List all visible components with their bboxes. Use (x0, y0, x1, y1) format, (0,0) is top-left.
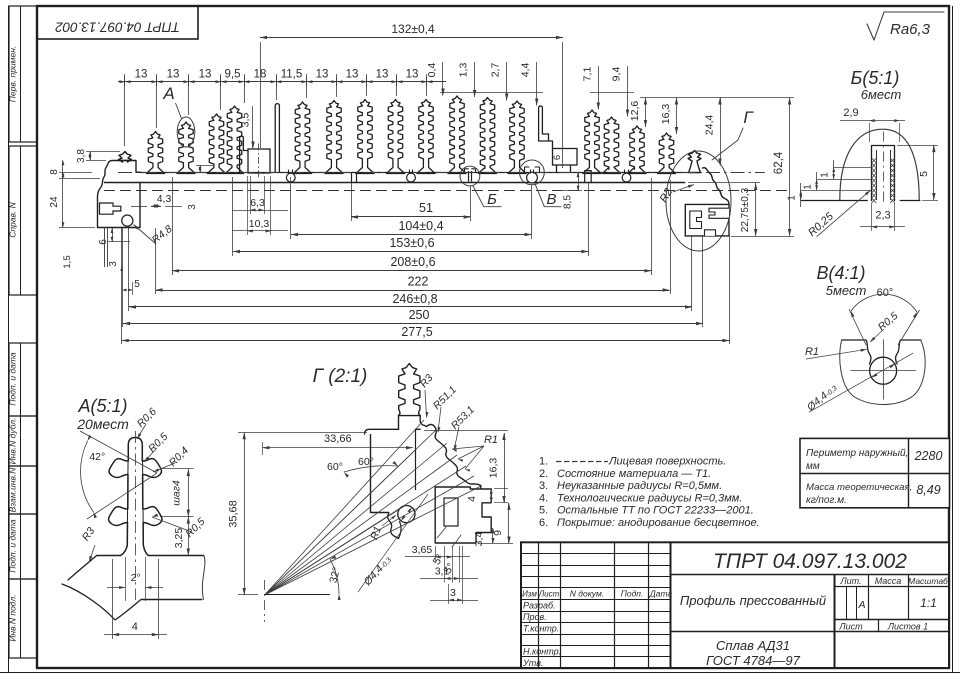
dash-dot face line (118, 172, 765, 174)
dim 24,4 (704, 98, 722, 166)
svg-text:Подп. и дата: Подп. и дата (8, 352, 18, 405)
detail marker G ellipse (666, 108, 754, 251)
svg-text:Масштаб: Масштаб (908, 576, 949, 586)
svg-text:Б(5:1): Б(5:1) (851, 68, 900, 88)
svg-text:Т.контр.: Т.контр. (523, 624, 559, 634)
svg-text:3.: 3. (539, 480, 548, 492)
stacked dims 51..277,5 (122, 177, 730, 344)
svg-text:2,3: 2,3 (875, 210, 890, 222)
svg-text:Масса теоретическая,: Масса теоретическая, (806, 482, 912, 493)
svg-text:мм: мм (806, 461, 820, 472)
svg-text:62,4: 62,4 (773, 151, 785, 174)
detail view B(5:1) (787, 68, 938, 239)
svg-text:Разраб.: Разраб. (523, 601, 556, 611)
svg-text:Периметр наружный,: Периметр наружный, (806, 448, 908, 459)
svg-text:Перв. примен.: Перв. примен. (8, 46, 18, 103)
svg-text:2,7: 2,7 (490, 63, 502, 78)
svg-text:8,49: 8,49 (916, 483, 940, 497)
svg-text:60°: 60° (877, 287, 894, 299)
svg-text:Взам.инв.N: Взам.инв.N (8, 467, 18, 513)
svg-text:Н.контр.: Н.контр. (523, 647, 561, 657)
dim 8,5 (560, 172, 582, 209)
svg-text:12,6: 12,6 (629, 101, 641, 122)
R2 label (658, 185, 694, 205)
svg-text:А: А (857, 599, 865, 611)
svg-text:104±0,4: 104±0,4 (398, 219, 443, 233)
left margin column (8, 6, 38, 658)
svg-text:Лицевая поверхность.: Лицевая поверхность. (608, 456, 726, 468)
svg-text:Покрытие: анодирование бесцвет: Покрытие: анодирование бесцветное. (557, 517, 760, 529)
svg-text:6: 6 (552, 155, 563, 160)
groove 1 (286, 170, 295, 182)
svg-text:R1: R1 (805, 346, 819, 358)
groove 3 (622, 170, 631, 182)
svg-text:5мест: 5мест (826, 283, 867, 298)
slot B (465, 169, 476, 182)
svg-text:кг/пог.м.: кг/пог.м. (806, 495, 847, 506)
svg-text:5: 5 (918, 171, 930, 177)
svg-text:1: 1 (787, 195, 798, 201)
svg-text:В: В (546, 191, 556, 208)
pitch dimension row 13/13/13/9,5/18/11,5 (118, 69, 446, 147)
svg-text:Неуказанные радиусы R=0,5мм.: Неуказанные радиусы R=0,5мм. (557, 480, 722, 492)
dim 62,4 (723, 98, 794, 237)
svg-text:Дата: Дата (649, 589, 673, 599)
svg-text:В(4:1): В(4:1) (816, 263, 865, 283)
svg-text:А(5:1): А(5:1) (77, 396, 127, 416)
small end fin left (119, 152, 132, 163)
groove 2 (407, 170, 416, 182)
svg-text:Подп.: Подп. (621, 589, 644, 599)
svg-text:13: 13 (167, 69, 180, 81)
svg-text:Ra6,3: Ra6,3 (890, 21, 931, 38)
svg-text:ГОСТ 4784—97: ГОСТ 4784—97 (706, 653, 800, 668)
svg-text:2,9: 2,9 (843, 107, 858, 119)
svg-text:Инв.N дубл.: Инв.N дубл. (8, 418, 18, 465)
svg-text:51: 51 (419, 201, 433, 215)
svg-text:246±0,8: 246±0,8 (392, 292, 437, 306)
svg-text:13: 13 (376, 69, 389, 81)
svg-text:16,3: 16,3 (660, 104, 672, 125)
svg-text:13: 13 (135, 69, 148, 81)
svg-text:Профиль прессованный: Профиль прессованный (680, 593, 826, 608)
svg-text:4,3: 4,3 (157, 193, 172, 205)
svg-text:60°: 60° (358, 456, 374, 468)
svg-text:13: 13 (406, 69, 419, 81)
dim 132±0,4 (260, 22, 563, 168)
svg-text:Лит.: Лит. (839, 576, 861, 586)
svg-text:13: 13 (199, 69, 212, 81)
svg-text:4.: 4. (539, 492, 548, 504)
svg-text:1: 1 (820, 172, 831, 178)
svg-text:2.: 2. (539, 468, 548, 480)
svg-text:9,4: 9,4 (611, 67, 623, 82)
svg-text:0,4: 0,4 (426, 63, 438, 78)
svg-text:Сплав АД31: Сплав АД31 (716, 638, 790, 653)
svg-text:153±0,6: 153±0,6 (389, 236, 434, 250)
svg-text:18: 18 (254, 69, 267, 81)
svg-text:ТПРТ 04.097.13.002: ТПРТ 04.097.13.002 (713, 550, 907, 573)
svg-text:Подп. и дата: Подп. и дата (8, 519, 18, 572)
svg-text:Лист: Лист (838, 622, 863, 632)
groove B (527, 170, 538, 183)
dim 12,6 (629, 98, 723, 128)
svg-text:Состояние материала — Т1.: Состояние материала — Т1. (557, 468, 711, 480)
svg-text:1:1: 1:1 (920, 596, 937, 610)
svg-text:6мест: 6мест (861, 87, 902, 102)
dim 3,5 channel (240, 106, 255, 149)
svg-text:Технологические радиусы R=0,3м: Технологические радиусы R=0,3мм. (557, 492, 742, 504)
channel box feature (240, 136, 270, 178)
svg-text:33,66: 33,66 (324, 433, 352, 445)
detail view V(4:1) (804, 263, 925, 414)
detail marker B circle (460, 166, 501, 208)
svg-text:6,3: 6,3 (250, 197, 265, 209)
svg-text:3,1: 3,1 (435, 566, 450, 578)
svg-text:7,1: 7,1 (581, 67, 593, 82)
svg-text:Остальные ТТ по ГОСТ 22233—200: Остальные ТТ по ГОСТ 22233—2001. (557, 505, 754, 517)
svg-text:Утв.: Утв. (522, 658, 543, 668)
svg-text:Инв.N подл.: Инв.N подл. (8, 594, 18, 641)
svg-text:10,3: 10,3 (249, 218, 270, 230)
svg-text:ТПРТ 04.097.13.002: ТПРТ 04.097.13.002 (55, 20, 180, 35)
detail marker V circle (520, 160, 562, 208)
svg-text:А: А (162, 84, 174, 103)
svg-text:22,75±0,3: 22,75±0,3 (740, 187, 751, 232)
svg-text:3,4: 3,4 (473, 532, 485, 547)
svg-text:3: 3 (450, 587, 456, 599)
small end fin right (688, 151, 701, 173)
svg-text:1: 1 (803, 184, 814, 190)
svg-text:208±0,6: 208±0,6 (390, 255, 435, 269)
detail view G(2:1) (228, 364, 514, 623)
groove B boss (525, 167, 540, 172)
svg-text:Справ. N: Справ. N (8, 201, 18, 237)
technical notes (539, 456, 760, 530)
surface roughness Ra6,3 (867, 12, 944, 40)
svg-text:4: 4 (132, 621, 138, 633)
svg-text:1,3: 1,3 (458, 63, 470, 78)
svg-text:1,5: 1,5 (62, 255, 73, 268)
svg-text:4,4: 4,4 (520, 63, 532, 78)
dim 22,75 (688, 183, 760, 237)
top-left document number box (37, 6, 198, 39)
title block (521, 542, 949, 668)
dim 16,3 (660, 98, 678, 135)
small dims 4,3 3 6,3 10,3 (131, 165, 288, 235)
svg-text:Пров.: Пров. (523, 612, 547, 622)
svg-text:6: 6 (98, 239, 109, 245)
svg-text:Лист: Лист (538, 590, 560, 599)
svg-text:250: 250 (409, 308, 430, 322)
detail view A(5:1) (62, 396, 208, 639)
svg-text:2°: 2° (131, 572, 141, 584)
svg-text:8: 8 (49, 169, 60, 175)
heatsink serrated fins (147, 96, 676, 174)
svg-text:Изм: Изм (522, 590, 537, 599)
svg-text:277,5: 277,5 (401, 325, 432, 339)
svg-text:3: 3 (187, 204, 198, 210)
svg-text:132±0,4: 132±0,4 (391, 22, 435, 36)
svg-text:Г (2:1): Г (2:1) (313, 366, 368, 387)
svg-text:4: 4 (466, 496, 478, 502)
svg-text:24,4: 24,4 (704, 115, 716, 136)
svg-text:11,5: 11,5 (281, 69, 303, 81)
svg-text:9: 9 (492, 530, 504, 536)
svg-text:N докум.: N докум. (570, 589, 604, 599)
svg-text:8,5: 8,5 (563, 195, 574, 209)
svg-text:222: 222 (408, 275, 429, 289)
step and 6-box feature (539, 106, 577, 172)
plain tall fin (275, 104, 279, 173)
fin height offset dims 0,4 1,3 2,7 4,4 7,1 9,4 (426, 62, 634, 117)
svg-text:6.: 6. (539, 517, 548, 529)
svg-text:24: 24 (49, 196, 60, 208)
svg-text:3,8: 3,8 (76, 149, 87, 163)
svg-text:5.: 5. (539, 505, 548, 517)
svg-text:13: 13 (316, 69, 329, 81)
svg-text:16,3: 16,3 (488, 458, 500, 479)
svg-text:9,5: 9,5 (225, 69, 241, 81)
svg-text:35,68: 35,68 (228, 500, 240, 528)
svg-text:3,65: 3,65 (412, 544, 433, 556)
left end of profile (98, 161, 141, 268)
svg-text:20мест: 20мест (76, 416, 129, 432)
perimeter/mass table (800, 438, 950, 507)
right end of profile (685, 168, 729, 236)
svg-text:3,5: 3,5 (240, 113, 252, 128)
svg-text:13: 13 (346, 69, 359, 81)
svg-text:42°: 42° (89, 451, 105, 463)
base plate (104, 171, 701, 183)
svg-text:шаг4: шаг4 (171, 480, 183, 506)
svg-text:Масса: Масса (875, 576, 902, 586)
left end dims 3,8 8 24 R4,8 6 1,5 3 5 (49, 149, 175, 295)
svg-text:1.: 1. (539, 456, 548, 468)
detail marker A (162, 84, 194, 147)
svg-text:2280: 2280 (914, 449, 943, 463)
svg-text:Б: Б (487, 191, 497, 208)
svg-text:5: 5 (134, 279, 140, 290)
svg-text:R1: R1 (484, 434, 498, 446)
svg-text:Листов 1: Листов 1 (887, 622, 928, 632)
svg-text:3: 3 (108, 261, 119, 267)
svg-text:60°: 60° (327, 461, 343, 473)
dashed front-surface line (104, 190, 790, 192)
